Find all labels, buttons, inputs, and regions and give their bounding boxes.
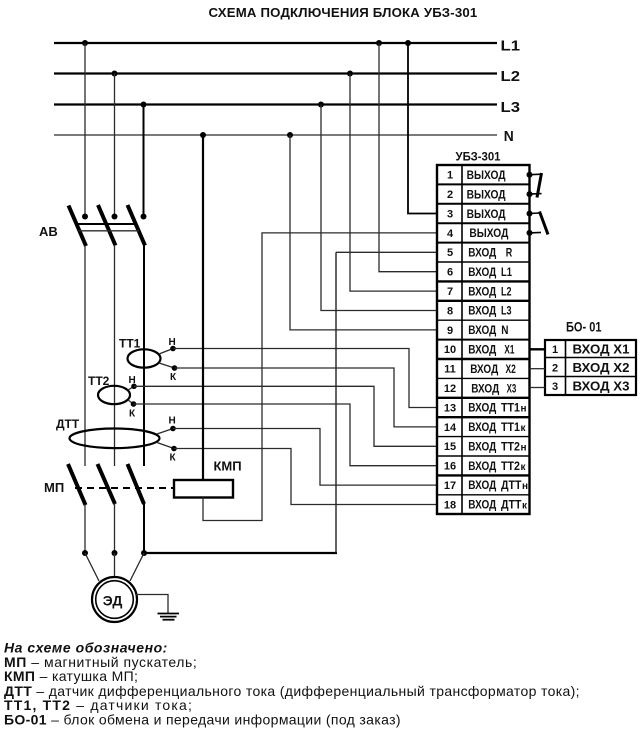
svg-text:СХЕМА ПОДКЛЮЧЕНИЯ БЛОКА УБЗ-30: СХЕМА ПОДКЛЮЧЕНИЯ БЛОКА УБЗ-301 xyxy=(209,5,478,20)
wire: phase A MP to motor xyxy=(84,505,86,554)
wire: TT2 K to terminal 16 xyxy=(134,404,438,466)
wire: riser to terminal 5 xyxy=(335,252,337,553)
svg-text:ВЫХОД: ВЫХОД xyxy=(467,187,506,201)
wire: phase B MP to motor xyxy=(114,504,116,554)
svg-text:Н: Н xyxy=(129,375,136,386)
node: AB contact A xyxy=(82,214,88,220)
svg-text:5: 5 xyxy=(447,247,453,259)
svg-text:ДТТ: ДТТ xyxy=(501,478,522,492)
svg-text:11: 11 xyxy=(444,364,456,376)
wire: DTT K to terminal 18 xyxy=(174,449,437,505)
svg-text:к: к xyxy=(521,423,527,434)
wire: phase B drop to AB xyxy=(114,74,116,217)
wire: motor junction to terminal 5 (R), bottom run xyxy=(144,552,337,554)
coil KMP box xyxy=(174,480,233,498)
node TT2 H xyxy=(131,384,137,390)
svg-text:ВХОД: ВХОД xyxy=(468,420,496,434)
node TT1 H xyxy=(170,346,176,352)
output contact 1-2 (closed) xyxy=(527,172,533,178)
svg-text:К: К xyxy=(170,372,177,383)
wire: terminal 12 to BO-01 pin 3 xyxy=(530,387,546,389)
svg-text:ВХОД: ВХОД xyxy=(468,439,496,453)
svg-text:АВ: АВ xyxy=(39,224,58,239)
node motor C xyxy=(141,550,147,556)
breaker AB blade 2 xyxy=(98,205,116,246)
svg-text:ВХОД: ВХОД xyxy=(468,498,496,512)
svg-text:N: N xyxy=(504,128,514,145)
svg-text:ВХОД: ВХОД xyxy=(468,323,496,337)
node motor B xyxy=(112,550,118,556)
breaker AB linkage bar top xyxy=(77,223,138,225)
svg-text:17: 17 xyxy=(444,480,456,492)
wire: L2 to terminal 7 xyxy=(350,74,437,292)
node TT2 K xyxy=(131,401,137,407)
svg-text:к: к xyxy=(521,462,527,473)
svg-text:3: 3 xyxy=(447,208,453,220)
node: L1 tap to terminal 6 xyxy=(376,40,382,46)
contactor MP blade 1 xyxy=(68,464,86,505)
current transformer TT1 xyxy=(128,349,161,367)
legend xyxy=(4,640,580,728)
wire: N drop to KMP coil xyxy=(202,135,204,480)
svg-text:2: 2 xyxy=(447,189,453,201)
wire: TT2 H to terminal 15 xyxy=(134,386,437,446)
TT2 lead K xyxy=(128,400,134,404)
contactor MP blade 2 xyxy=(98,464,116,504)
node TT1 K xyxy=(172,365,178,371)
node: AB contact C xyxy=(141,214,147,220)
svg-text:10: 10 xyxy=(444,344,456,356)
svg-text:R: R xyxy=(506,246,513,260)
svg-text:16: 16 xyxy=(444,461,456,473)
wire: KMP coil to terminal 4 xyxy=(203,233,437,521)
node DTT H xyxy=(170,426,176,432)
svg-text:L2: L2 xyxy=(501,284,512,298)
TT1 lead K xyxy=(159,363,175,368)
svg-text:7: 7 xyxy=(447,286,453,298)
svg-text:L3: L3 xyxy=(501,304,512,318)
svg-text:ВХОД: ВХОД xyxy=(468,343,496,357)
breaker AB blade 1 xyxy=(69,206,87,247)
svg-text:МП: МП xyxy=(44,480,64,495)
svg-text:15: 15 xyxy=(444,441,456,453)
svg-text:КМП – катушка МП;: КМП – катушка МП; xyxy=(4,668,138,684)
svg-text:ВХОД Х1: ВХОД Х1 xyxy=(573,342,630,356)
svg-text:ДТТ: ДТТ xyxy=(56,417,80,431)
svg-text:ТТ2: ТТ2 xyxy=(501,439,520,453)
svg-text:13: 13 xyxy=(444,402,456,414)
svg-text:L2: L2 xyxy=(501,68,521,85)
node: AB contact B xyxy=(112,214,118,220)
wire: motor lead B xyxy=(114,553,116,577)
svg-text:БО- 01: БО- 01 xyxy=(566,319,602,335)
svg-text:ТТ2: ТТ2 xyxy=(88,374,110,388)
svg-text:ВХОД: ВХОД xyxy=(468,265,496,279)
svg-text:К: К xyxy=(170,453,177,464)
svg-text:ТТ1: ТТ1 xyxy=(119,337,141,351)
svg-text:ТТ1: ТТ1 xyxy=(501,401,520,415)
node: N tap to KMP coil xyxy=(200,132,206,138)
node: L1 tap to terminal 3 xyxy=(405,40,411,46)
svg-text:Н: Н xyxy=(169,337,176,348)
svg-text:ДТТ: ДТТ xyxy=(501,498,522,512)
svg-text:К: К xyxy=(129,409,136,420)
svg-text:9: 9 xyxy=(447,325,453,337)
svg-text:н: н xyxy=(522,481,528,492)
svg-text:1: 1 xyxy=(552,344,558,356)
current transformer TT2 xyxy=(98,386,130,404)
svg-text:УБЗ-301: УБЗ-301 xyxy=(456,150,501,164)
differential transformer DTT xyxy=(70,429,160,449)
svg-text:ВЫХОД: ВЫХОД xyxy=(469,226,508,240)
svg-text:ВХОД: ВХОД xyxy=(470,362,498,376)
wire: motor lead C xyxy=(130,553,144,581)
wire: L1 to terminal 6 xyxy=(379,43,437,272)
terminal numbers and labels xyxy=(444,170,457,512)
svg-text:ТТ2: ТТ2 xyxy=(501,459,520,473)
svg-text:Х1: Х1 xyxy=(504,343,514,357)
wire: N to terminal 9 xyxy=(290,135,437,330)
wire: terminal 11 to BO-01 pin 2 xyxy=(530,368,546,370)
node: N tap to terminal 9 xyxy=(287,132,293,138)
svg-text:L1: L1 xyxy=(501,38,521,55)
wire: phase B AB to MP xyxy=(114,245,116,466)
svg-text:8: 8 xyxy=(447,305,453,317)
motor ED inner circle xyxy=(96,581,134,619)
svg-text:н: н xyxy=(521,404,527,415)
svg-text:ВХОД: ВХОД xyxy=(468,478,496,492)
svg-text:ВХОД: ВХОД xyxy=(468,304,496,318)
svg-text:ВЫХОД: ВЫХОД xyxy=(467,168,506,182)
svg-text:ЭД: ЭД xyxy=(103,593,123,609)
svg-text:Х3: Х3 xyxy=(507,381,517,395)
TT1 lead H xyxy=(159,349,173,355)
TT2 lead H xyxy=(128,386,134,390)
svg-text:ВХОД: ВХОД xyxy=(468,401,496,415)
wire: L1 to terminal 3 xyxy=(408,43,437,214)
svg-text:2: 2 xyxy=(552,363,558,375)
node: L1 tap phase A xyxy=(82,40,88,46)
svg-text:ВХОД Х3: ВХОД Х3 xyxy=(573,379,630,393)
wire: TT1 H to terminal 13 xyxy=(173,349,437,408)
wire: phase C drop to AB xyxy=(143,105,145,217)
svg-text:БО-01 – блок обмена и передачи: БО-01 – блок обмена и передачи информаци… xyxy=(4,712,401,728)
DTT lead K xyxy=(157,443,174,449)
svg-text:ВХОД Х2: ВХОД Х2 xyxy=(573,361,630,375)
svg-text:Х2: Х2 xyxy=(506,362,517,376)
bus L1 xyxy=(54,42,497,44)
node motor A xyxy=(82,550,88,556)
wire: DTT H to terminal 17 xyxy=(173,429,437,486)
svg-text:н: н xyxy=(521,442,527,453)
dashed linkage MP to KMP xyxy=(75,487,174,489)
DTT lead H xyxy=(157,429,173,435)
breaker AB linkage bar bottom xyxy=(79,230,140,232)
node: L2 tap phase B xyxy=(112,71,118,77)
svg-text:ВЫХОД: ВЫХОД xyxy=(467,207,506,221)
wire: phase A drop to AB xyxy=(84,43,86,216)
wire: phase C AB to MP xyxy=(143,245,145,466)
svg-text:ВХОД: ВХОД xyxy=(468,459,496,473)
node: L3 tap phase C xyxy=(141,102,147,108)
svg-text:ВХОД: ВХОД xyxy=(468,284,496,298)
svg-text:L3: L3 xyxy=(501,99,521,116)
svg-text:к: к xyxy=(522,501,528,512)
ground symbol xyxy=(158,613,180,615)
wire: entry terminal 5 xyxy=(336,251,437,253)
wire: TT1 K to terminal 14 xyxy=(175,368,438,427)
svg-text:ВХОД: ВХОД xyxy=(468,246,496,260)
wire: phase C MP to motor xyxy=(143,504,145,554)
svg-text:3: 3 xyxy=(552,381,558,393)
svg-text:L1: L1 xyxy=(501,265,512,279)
svg-text:12: 12 xyxy=(444,383,456,395)
wire: motor to ground xyxy=(136,595,168,614)
svg-text:ТТ1: ТТ1 xyxy=(501,420,520,434)
wire: phase A AB to MP xyxy=(84,246,86,467)
contactor MP blade 3 xyxy=(128,464,145,504)
svg-text:14: 14 xyxy=(444,422,457,434)
svg-text:6: 6 xyxy=(447,267,453,279)
wire: L3 to terminal 8 xyxy=(321,105,437,311)
bus L2 xyxy=(54,72,497,74)
node DTT K xyxy=(171,446,177,452)
bus N xyxy=(54,134,497,136)
breaker AB blade 3 xyxy=(128,205,146,246)
svg-text:N: N xyxy=(501,323,508,337)
wire: motor lead A xyxy=(85,553,99,581)
svg-text:4: 4 xyxy=(447,228,454,240)
svg-text:КМП: КМП xyxy=(214,459,242,474)
motor ED outer circle xyxy=(92,577,137,622)
wire: terminal 10 to BO-01 pin 1 xyxy=(530,348,546,350)
svg-text:Н: Н xyxy=(169,416,176,427)
svg-text:ВХОД: ВХОД xyxy=(471,381,499,395)
node: L2 tap to terminal 7 xyxy=(347,71,353,77)
node: L3 tap to terminal 8 xyxy=(318,102,324,108)
output contact 3-4 (open) xyxy=(527,211,533,217)
svg-text:1: 1 xyxy=(447,170,453,182)
svg-text:18: 18 xyxy=(444,499,456,511)
bus L3 xyxy=(54,103,497,105)
